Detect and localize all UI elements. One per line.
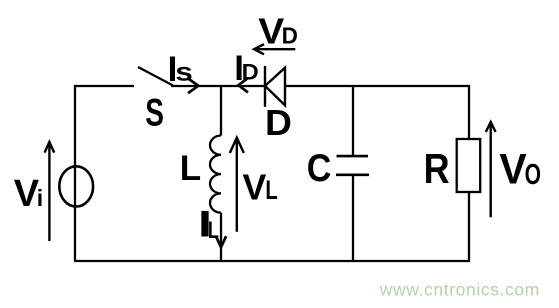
svg-text:O: O [525,159,541,191]
svg-text:V: V [243,167,267,208]
svg-text:V: V [499,146,527,193]
svg-text:i: i [37,185,43,211]
svg-text:www.cntronics.com: www.cntronics.com [379,279,540,299]
svg-text:C: C [307,147,332,190]
svg-text:D: D [242,59,259,84]
svg-text:L: L [208,217,219,244]
svg-text:D: D [265,102,292,143]
svg-text:V: V [258,11,284,52]
svg-text:R: R [424,145,450,192]
svg-text:D: D [282,23,298,49]
svg-text:L: L [180,149,201,188]
svg-text:S: S [145,92,164,135]
svg-text:s: s [175,57,193,87]
svg-text:L: L [265,175,277,205]
